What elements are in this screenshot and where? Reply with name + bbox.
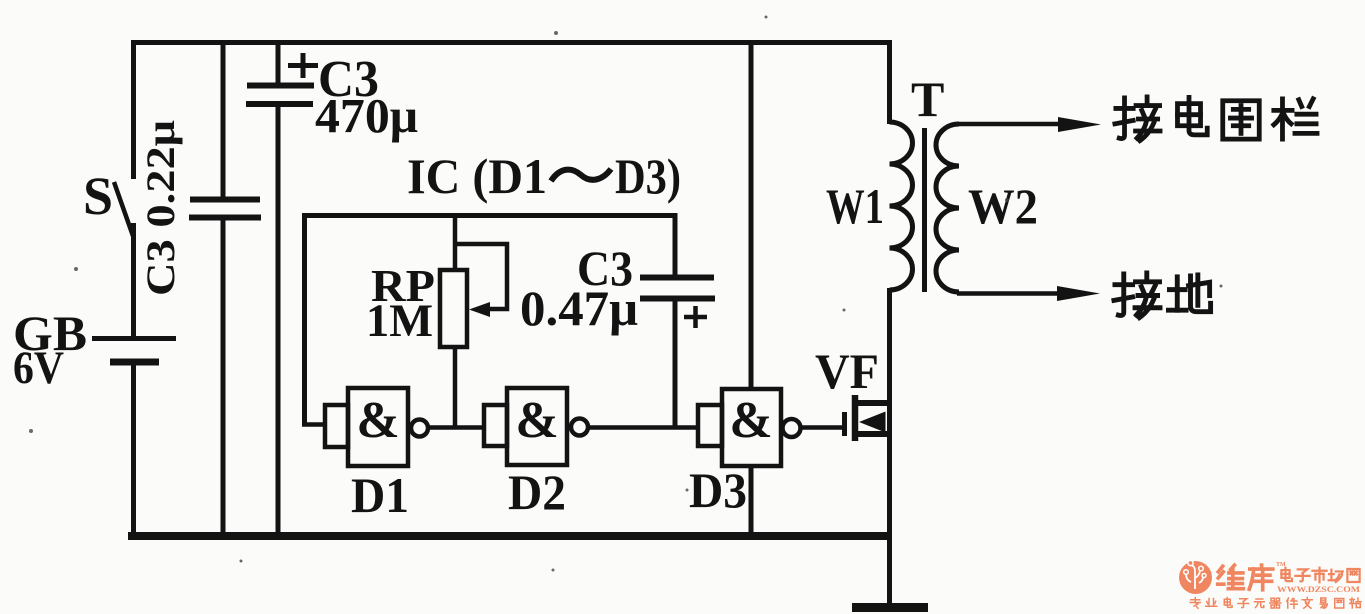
svg-text:D1: D1 — [351, 467, 409, 523]
transformer core — [922, 128, 927, 292]
wire D3 bottom to bottom rail — [749, 465, 754, 536]
svg-text:VF: VF — [815, 343, 879, 399]
svg-text:T: T — [911, 71, 944, 127]
svg-text:C3 0.22μ: C3 0.22μ — [138, 120, 183, 296]
battery GB minus plate — [110, 359, 159, 366]
wire D1 output to D2 input — [428, 425, 485, 430]
wire branch C3 0.22u upper — [221, 40, 226, 198]
C3 470u plus polarity mark — [288, 53, 318, 78]
battery GB plus plate — [92, 336, 176, 341]
wire multivibrator left — [302, 213, 307, 424]
arrowhead to earth — [1057, 286, 1100, 301]
capacitor C3 470u bottom plate — [246, 101, 313, 107]
potentiometer RP wiper arrowhead — [469, 302, 490, 317]
wire branch C3 0.22u lower — [221, 220, 226, 536]
watermark dian-zi-shi-chang-wang — [1281, 568, 1359, 583]
label jie-di (to earth) — [1114, 273, 1211, 318]
wire branch C3 470u upper — [276, 40, 281, 84]
wire to D1 input — [302, 422, 326, 427]
capacitor C3 0.22u bottom plate — [189, 215, 261, 221]
svg-text:470μ: 470μ — [315, 88, 418, 143]
wire D3 power feed from top rail — [749, 45, 754, 390]
svg-text:WWW.DZSC.COM: WWW.DZSC.COM — [1277, 584, 1360, 594]
wire D3 output to VF gate — [800, 425, 843, 430]
svg-text:&: & — [729, 392, 772, 449]
C3 0.47u plus polarity mark — [684, 306, 707, 328]
wire W2 bottom lead — [957, 291, 1062, 296]
svg-text:1M: 1M — [366, 295, 433, 347]
capacitor C3 470u top plate — [247, 83, 314, 89]
transformer winding W1 — [890, 122, 913, 290]
svg-text:S: S — [83, 166, 113, 226]
wire bottom rail — [128, 532, 890, 540]
ground — [852, 603, 928, 612]
wire multivibrator top — [302, 213, 675, 218]
label jie-dian-wei-lan (to electric fence) — [1115, 97, 1317, 141]
wire RP top feed — [453, 215, 458, 271]
wire right rail top — [887, 40, 892, 124]
capacitor C3 0.47u bottom plate — [640, 296, 715, 302]
wire right rail lower to ground — [887, 288, 892, 604]
capacitor C3 0.47u top plate — [640, 275, 714, 281]
NAND gate D2 — [484, 388, 588, 465]
switch S blade — [114, 182, 133, 236]
watermark wei-ku — [1218, 565, 1273, 590]
wire left rail upper — [131, 40, 136, 179]
arrowhead to fence — [1058, 117, 1101, 132]
svg-text:D3: D3 — [689, 462, 747, 518]
transformer winding W2 — [936, 124, 959, 292]
NAND gate D1 — [325, 388, 428, 466]
watermark logo circle — [1179, 560, 1212, 594]
svg-text:D3): D3) — [615, 148, 681, 204]
wire RP bottom — [453, 346, 458, 428]
potentiometer RP wiper bracket — [455, 244, 507, 309]
svg-text:0.47μ: 0.47μ — [520, 280, 638, 336]
svg-text:IC (D1: IC (D1 — [407, 148, 547, 204]
wire D2 output to D3 input — [587, 425, 699, 430]
wire multivibrator right upper — [673, 213, 678, 275]
capacitor C3 0.22u top plate — [190, 197, 260, 203]
wire switch to battery — [131, 223, 136, 336]
watermark tagline zhuan-ye-dian-zi-yuan-qi-jian-jiao-yi-wang-zhan — [1190, 598, 1361, 609]
svg-text:W2: W2 — [968, 178, 1038, 234]
wire battery to bottom rail — [131, 365, 136, 538]
NAND gate D3 — [698, 389, 801, 466]
potentiometer RP body — [440, 270, 467, 347]
svg-text:W1: W1 — [826, 178, 884, 234]
wire multivibrator right lower — [673, 301, 678, 428]
transistor VF MOSFET — [845, 395, 888, 441]
wire W2 top lead — [957, 122, 1062, 127]
svg-text:&: & — [515, 392, 558, 449]
svg-text:&: & — [356, 392, 399, 449]
svg-text:D2: D2 — [508, 464, 566, 520]
wire branch C3 470u lower — [276, 106, 281, 536]
svg-text:6V: 6V — [13, 342, 64, 394]
wire top rail — [131, 40, 890, 45]
